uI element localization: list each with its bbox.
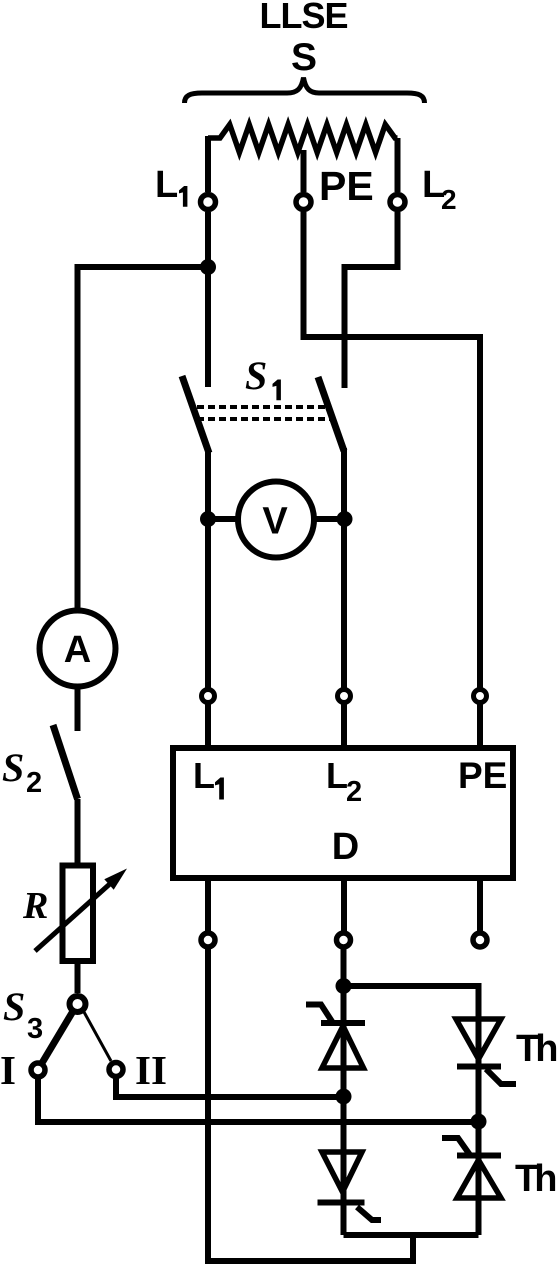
- thyristor upper-right gate: [486, 1069, 516, 1084]
- wire voltmeter right lead: [314, 516, 345, 522]
- terminal above D L1: [202, 690, 215, 703]
- switch S3 position line to II: [84, 1012, 111, 1061]
- contact I: [31, 1063, 45, 1077]
- node voltmeter left: [200, 511, 216, 527]
- thyristor upper-right triangle: [456, 1019, 501, 1059]
- svg-text:PE: PE: [319, 163, 374, 209]
- node right column / I line: [471, 1114, 487, 1130]
- thyristor lower-right gate: [442, 1138, 470, 1155]
- wire PE to right side: [304, 212, 481, 690]
- wire below D L1: [205, 878, 211, 932]
- thyristor upper-right cathode bar: [457, 1064, 501, 1070]
- wire I to right column: [38, 1077, 479, 1122]
- svg-text:S: S: [2, 745, 24, 790]
- wire below D L2: [341, 878, 347, 932]
- wire branch to right column: [344, 986, 479, 1235]
- thyristor upper-left triangle: [322, 1026, 364, 1068]
- heater element S zigzag: [208, 125, 398, 153]
- svg-text:D: D: [332, 826, 359, 868]
- switch S1 linkage dashes: [197, 407, 334, 419]
- wire ammeter to S2: [75, 687, 81, 731]
- svg-text:I: I: [0, 1047, 16, 1093]
- svg-text:S: S: [291, 36, 317, 79]
- svg-text:Th: Th: [516, 1028, 556, 1070]
- svg-text:L: L: [326, 755, 348, 796]
- label L2: [422, 164, 457, 215]
- wire PE lead: [301, 150, 307, 192]
- svg-text:S: S: [3, 984, 25, 1029]
- wire bottom link: [344, 1232, 479, 1238]
- rheostat R body: [63, 866, 94, 962]
- wire into D PE: [477, 703, 483, 752]
- terminal below D L1: [201, 933, 215, 947]
- thyristor upper-left cathode bar: [321, 1020, 365, 1026]
- thyristor lower-left triangle: [322, 1152, 362, 1192]
- node junction L1/ammeter branch: [200, 259, 216, 275]
- wire R to S3: [75, 961, 81, 993]
- wire into D L2: [341, 703, 347, 752]
- brace: [185, 78, 425, 104]
- svg-text:2: 2: [346, 776, 362, 808]
- svg-text:II: II: [135, 1047, 167, 1093]
- svg-text:S: S: [245, 353, 267, 398]
- wire S2 to R: [75, 799, 81, 865]
- voltmeter V: [238, 482, 314, 558]
- label D L2: [326, 755, 362, 808]
- switch S1 label: [245, 353, 281, 400]
- svg-text:R: R: [22, 885, 48, 927]
- wire L2 lead: [395, 138, 401, 192]
- svg-text:L: L: [155, 164, 178, 206]
- switch S1 right blade: [318, 377, 344, 451]
- device D box: [173, 748, 513, 878]
- wire L1 down to S1: [205, 212, 211, 387]
- wire S1 right to voltmeter node: [341, 448, 347, 690]
- thyristor lower-right cathode bar: [457, 1153, 501, 1159]
- svg-text:A: A: [64, 629, 91, 671]
- thyristor lower-left cathode bar: [318, 1200, 365, 1206]
- node mid column / II line: [336, 1089, 352, 1105]
- rheostat R arrow: [35, 882, 112, 951]
- svg-text:2: 2: [441, 184, 457, 215]
- wire L2 jog: [345, 212, 398, 388]
- label L1: [155, 164, 187, 207]
- ammeter A: [40, 611, 116, 687]
- thyristor lower-right triangle: [457, 1160, 501, 1198]
- wire voltmeter left lead: [208, 516, 238, 522]
- wire into D L1: [205, 703, 211, 752]
- svg-text:LLSE: LLSE: [259, 0, 347, 36]
- svg-text:V: V: [262, 501, 288, 543]
- svg-text:Th: Th: [515, 1158, 555, 1200]
- contact II: [109, 1063, 123, 1077]
- wire L2 column through thyristors: [341, 948, 347, 1236]
- svg-text:2: 2: [26, 767, 42, 799]
- terminal L1: [201, 195, 216, 210]
- svg-text:PE: PE: [458, 755, 507, 796]
- svg-text:3: 3: [27, 1013, 43, 1045]
- wire II to mid column: [116, 1077, 343, 1098]
- label D L1: [193, 755, 224, 800]
- wire L1 column to bottom: [208, 948, 413, 1262]
- switch S2 blade: [53, 725, 78, 799]
- switch S3 label: [3, 984, 43, 1045]
- wire branch to ammeter: [78, 267, 209, 610]
- terminal L2: [390, 195, 405, 210]
- switch S1 left blade: [182, 376, 209, 453]
- terminal above D L2: [338, 690, 351, 703]
- terminal above D PE: [474, 690, 487, 703]
- thyristor lower-left gate: [357, 1207, 381, 1220]
- thyristor upper-left gate: [306, 1005, 333, 1024]
- terminal below D L2: [337, 933, 351, 947]
- wire L1 lead: [205, 136, 211, 192]
- wire S1 left to voltmeter node: [205, 450, 211, 690]
- switch S2 label: [2, 745, 42, 799]
- terminal below D PE: [473, 933, 487, 947]
- node thyristor top branch: [336, 978, 352, 994]
- node voltmeter right: [337, 511, 353, 527]
- terminal PE: [296, 195, 311, 210]
- wire below D PE: [477, 878, 483, 932]
- switch S3 pivot: [70, 996, 86, 1012]
- svg-text:L: L: [193, 755, 215, 796]
- switch S3 blade to I: [42, 1012, 73, 1063]
